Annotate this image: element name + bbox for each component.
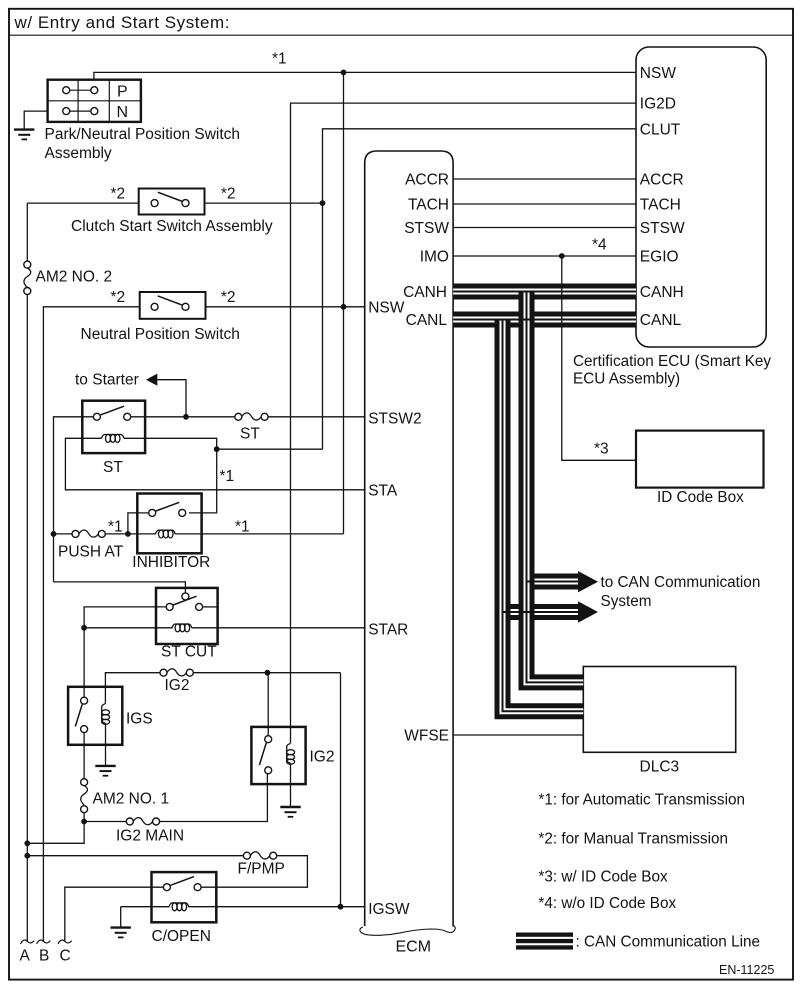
svg-text:CANL: CANL	[406, 312, 448, 329]
wire IG2 fuse line (IGS coil to IGSW column)	[105, 673, 160, 704]
ground (C/OPEN coil)	[111, 928, 131, 938]
relay INHIBITOR box	[137, 494, 201, 554]
fuse IG2 MAIN	[84, 774, 267, 825]
terminal label C	[60, 948, 71, 965]
svg-text:ECU Assembly): ECU Assembly)	[573, 371, 680, 388]
wire EGIO node to ID Code Box	[562, 256, 636, 460]
node A column / AM2 NO.1 branch	[24, 840, 30, 846]
wire ST CUT switch left to column	[84, 607, 166, 698]
wire node to A column	[27, 822, 84, 844]
label ST (relay)	[103, 459, 123, 476]
label *2 (NPS right)	[221, 289, 236, 306]
wire vertical NSW/inhibitor net	[343, 72, 345, 534]
node IGSW	[338, 904, 344, 910]
label *2 (NPS left)	[111, 289, 126, 306]
svg-text:NSW: NSW	[640, 65, 677, 82]
node NSW at ECM	[341, 304, 347, 310]
label *1 (below node)	[220, 468, 235, 485]
label ST CUT	[161, 644, 217, 661]
wire IGS switch to AM2 NO.1 fuse	[83, 732, 85, 778]
wire STSW (ECM to Cert ECU)	[453, 227, 636, 229]
IGS switch contacts	[75, 697, 87, 732]
svg-text:CLUT: CLUT	[640, 121, 681, 138]
label *2 (clutch right)	[221, 186, 236, 203]
break symbol A	[21, 940, 35, 944]
label Park/Neutral Position Switch Assembly	[45, 126, 241, 162]
label *4	[592, 237, 607, 254]
svg-text:IG2D: IG2D	[640, 96, 676, 113]
wire IG2 switch top to node	[267, 673, 269, 736]
fuse PUSH AT	[54, 530, 128, 537]
fuse AM2 NO. 2	[24, 261, 31, 294]
wire inhibitor switch left to node	[128, 513, 149, 534]
wire ST coil left to STA	[65, 438, 364, 490]
wire column A upper	[26, 203, 28, 261]
svg-text:ST CUT: ST CUT	[161, 644, 217, 661]
svg-text:ID Code Box: ID Code Box	[657, 489, 744, 506]
wire P contact to NSW pins (net *1/NSW)	[94, 72, 636, 79]
ECM pin STSW	[404, 220, 449, 237]
svg-text:TACH: TACH	[408, 197, 449, 214]
note *4 w/o ID Code Box	[538, 895, 676, 912]
ground (Park/Neutral switch)	[14, 130, 34, 140]
fuse AM2 NO. 1	[81, 779, 88, 813]
svg-text:Park/Neutral Position Switch: Park/Neutral Position Switch	[45, 126, 241, 143]
label AM2 NO. 2	[36, 269, 113, 286]
svg-text:*2: *2	[221, 289, 236, 306]
svg-text:IGSW: IGSW	[368, 901, 410, 918]
Cert ECU pin ACCR	[640, 172, 684, 189]
svg-text:*3: *3	[594, 441, 609, 458]
label IG2 (relay)	[310, 749, 335, 766]
svg-text:IG2 MAIN: IG2 MAIN	[116, 828, 184, 845]
node on EGIO wire	[559, 253, 565, 259]
svg-text:AM2 NO. 2: AM2 NO. 2	[36, 269, 113, 286]
IG2 coil (vertical)	[287, 744, 295, 765]
svg-text:C/OPEN: C/OPEN	[152, 928, 211, 945]
clutch switch contacts	[151, 192, 189, 206]
svg-text:*2: *2	[221, 186, 236, 203]
label ST (fuse)	[240, 426, 260, 443]
svg-text:A: A	[20, 948, 31, 965]
Certification ECU label	[573, 353, 771, 388]
label *1 (inhibitor right)	[235, 519, 250, 536]
wire TACH (ECM to Cert ECU)	[453, 203, 636, 205]
label Neutral Position Switch	[81, 326, 240, 343]
wire IG2 coil to ground	[290, 763, 292, 806]
node PUSH AT left	[51, 531, 57, 537]
wire clutch switch right to CLUT node	[205, 202, 323, 204]
Neutral Position Switch box	[140, 292, 206, 319]
label *3	[594, 441, 609, 458]
label IGS	[126, 711, 153, 728]
svg-text:*3: w/ ID Code Box: *3: w/ ID Code Box	[538, 869, 668, 886]
node CLUT / clutch switch junction	[320, 200, 326, 206]
Cert ECU pin IG2D	[640, 96, 676, 113]
svg-text:ST: ST	[103, 459, 123, 476]
ECM pin STA	[368, 483, 398, 500]
svg-text:*4: w/o ID Code Box: *4: w/o ID Code Box	[538, 895, 676, 912]
ECM pin CANH	[403, 284, 447, 301]
svg-text:ST: ST	[240, 426, 260, 443]
figure number EN-11225	[719, 963, 774, 977]
break symbol B	[37, 940, 51, 944]
CAN arrowhead 1	[578, 571, 598, 592]
svg-text:*2: *2	[111, 186, 126, 203]
node NSW top line	[341, 70, 347, 76]
svg-text:IG2: IG2	[310, 749, 335, 766]
IG2 switch contacts	[259, 736, 271, 774]
wire fuse to IG2 MAIN node	[83, 813, 85, 822]
label *1 (push at)	[108, 519, 123, 536]
svg-text:System: System	[601, 593, 652, 610]
legend CAN line symbol	[516, 933, 573, 950]
terminal label A	[20, 948, 31, 965]
CAN bus lines (CANH, CANL, branches to DLC3 and arrows)	[453, 292, 636, 712]
ground (IGS coil)	[95, 766, 115, 776]
label PUSH AT	[58, 544, 124, 561]
CAN arrowhead 2	[578, 601, 598, 622]
relay ST CUT box	[156, 588, 218, 644]
svg-text:*2: *2	[111, 289, 126, 306]
wire ACCR (ECM to Cert ECU)	[453, 178, 636, 180]
relay C/OPEN box	[152, 872, 217, 922]
wire IG2D line	[291, 103, 637, 743]
legend text CAN Communication Line	[576, 934, 761, 951]
svg-text:AM2 NO. 1: AM2 NO. 1	[93, 791, 170, 808]
svg-text:INHIBITOR: INHIBITOR	[132, 554, 210, 571]
svg-text:*2: for Manual Transmission: *2: for Manual Transmission	[538, 831, 728, 848]
svg-text:Certification ECU (Smart Key: Certification ECU (Smart Key	[573, 353, 771, 370]
IGS coil (vertical)	[102, 704, 110, 725]
relay IG2 box	[251, 727, 305, 784]
wire IGSW column	[340, 673, 342, 907]
ST CUT coil	[84, 624, 192, 632]
Cert ECU pin NSW	[640, 65, 677, 82]
wire fuse ST to ECM STSW2	[268, 416, 365, 418]
pin label P	[117, 83, 128, 100]
arrow to Starter	[146, 374, 186, 417]
ECM label	[396, 939, 432, 956]
relay ST coil	[102, 434, 124, 442]
svg-text:CANH: CANH	[403, 284, 447, 301]
ground (IG2 coil)	[280, 807, 300, 817]
svg-text:Assembly: Assembly	[45, 145, 112, 162]
svg-text:*1: for Automatic Transmission: *1: for Automatic Transmission	[538, 792, 745, 809]
svg-text:: CAN Communication Line: : CAN Communication Line	[576, 934, 761, 951]
ECM pin STSW2	[368, 411, 421, 428]
fuse F/PMP	[27, 852, 307, 887]
svg-text:STA: STA	[368, 483, 398, 500]
node ST CUT coil	[81, 625, 87, 631]
svg-text:to CAN Communication: to CAN Communication	[601, 574, 761, 591]
wire column A lower	[26, 294, 28, 941]
wire ST CUT supply	[54, 582, 186, 593]
Cert ECU pin CLUT	[640, 121, 681, 138]
neutral position switch contacts	[151, 296, 189, 310]
terminal label B	[39, 948, 49, 965]
wire IGS coil to ground	[105, 723, 107, 765]
svg-text:Neutral Position Switch: Neutral Position Switch	[81, 326, 240, 343]
svg-text:ACCR: ACCR	[405, 172, 449, 189]
svg-text:*1: *1	[272, 51, 287, 68]
DLC3 label	[640, 759, 680, 776]
note *1 for Automatic Transmission	[538, 792, 745, 809]
svg-text:STSW: STSW	[640, 220, 685, 237]
inhibitor switch contacts	[149, 502, 186, 516]
svg-text:STSW2: STSW2	[368, 411, 421, 428]
relay ST box	[82, 401, 145, 453]
svg-text:EN-11225: EN-11225	[719, 963, 774, 977]
Cert ECU pin CANL	[640, 312, 682, 329]
ECM pin IMO	[420, 249, 449, 266]
P/N switch contact N row	[63, 108, 98, 115]
svg-text:DLC3: DLC3	[640, 759, 680, 776]
wire CLUT line	[323, 129, 637, 449]
Cert ECU pin EGIO	[640, 249, 679, 266]
label F/PMP	[238, 861, 285, 878]
svg-text:IG2: IG2	[165, 677, 190, 694]
label *2 (clutch left)	[111, 186, 126, 203]
ECM pin TACH	[408, 197, 449, 214]
DLC3 box	[583, 667, 735, 753]
Cert ECU pin TACH	[640, 197, 681, 214]
Certification ECU box U2	[636, 47, 766, 347]
svg-text:WFSE: WFSE	[404, 728, 449, 745]
label C/OPEN	[152, 928, 211, 945]
wire ST switch left to PUSH AT column	[54, 417, 94, 582]
wire IMO to EGIO	[453, 255, 636, 257]
Cert ECU pin CANH	[640, 284, 684, 301]
wire C/OPEN switch left to C column	[65, 887, 164, 941]
label IG2 MAIN	[116, 828, 184, 845]
ECM pin CANL	[406, 312, 448, 329]
svg-text:*1: *1	[108, 519, 123, 536]
ST CUT switch contacts	[166, 593, 217, 611]
C/OPEN switch contacts	[163, 877, 201, 891]
svg-text:STSW: STSW	[404, 220, 449, 237]
ID Code Box label	[657, 489, 744, 506]
label to CAN Communication System	[601, 574, 761, 610]
svg-text:to Starter: to Starter	[75, 372, 139, 389]
note *3 w/ ID Code Box	[538, 869, 668, 886]
Clutch Start Switch Assembly box	[139, 189, 205, 215]
node inhibitor coil / switch	[125, 531, 131, 537]
svg-text:w/ Entry and Start System:: w/ Entry and Start System:	[14, 13, 231, 32]
wire C/OPEN coil to ground	[120, 907, 122, 927]
C/OPEN coil	[121, 903, 365, 911]
node starter branch	[183, 414, 189, 420]
wire ST switch right to fuse ST	[131, 416, 235, 418]
P/N switch contact P row	[63, 87, 98, 94]
node IG2 relay branch	[265, 670, 271, 676]
wire ST CUT coil to ECM STAR	[192, 627, 365, 629]
ID Code Box	[636, 431, 764, 488]
svg-text:CANH: CANH	[640, 284, 684, 301]
svg-text:B: B	[39, 948, 49, 965]
ECM box (wavy bottom break)	[360, 151, 455, 935]
wire NPS right to ECM NSW	[206, 306, 365, 308]
svg-text:N: N	[117, 104, 129, 121]
svg-text:*1: *1	[235, 519, 250, 536]
ECM pin WFSE	[404, 728, 449, 745]
title underline	[9, 34, 793, 36]
relay IGS box	[68, 687, 122, 745]
svg-text:Clutch Start Switch Assembly: Clutch Start Switch Assembly	[71, 218, 273, 235]
node IG2 MAIN	[81, 819, 87, 825]
node ST coil / CLUT / inhibitor	[214, 446, 220, 452]
svg-text:*1: *1	[220, 468, 235, 485]
inhibitor coil	[128, 530, 344, 538]
svg-text:ACCR: ACCR	[640, 172, 684, 189]
svg-text:C: C	[60, 948, 71, 965]
fuse ST	[235, 413, 268, 420]
wire ST coil right to node	[124, 438, 217, 513]
ECM pin NSW	[368, 299, 405, 316]
ECM pin STAR	[368, 622, 408, 639]
label INHIBITOR	[132, 554, 210, 571]
svg-text:IMO: IMO	[420, 249, 449, 266]
pin label N	[117, 104, 129, 121]
svg-text:TACH: TACH	[640, 197, 681, 214]
node A column / F PMP branch	[24, 853, 30, 859]
svg-text:CANL: CANL	[640, 312, 682, 329]
Park/Neutral Position Switch Assembly box	[48, 80, 141, 122]
note *2 for Manual Transmission	[538, 831, 728, 848]
svg-text:ECM: ECM	[396, 939, 432, 956]
wire N row to ground	[24, 111, 47, 129]
label to Starter	[75, 372, 139, 389]
svg-text:EGIO: EGIO	[640, 249, 679, 266]
wire WFSE (ECM to DLC3)	[453, 734, 583, 736]
svg-text:P: P	[117, 83, 128, 100]
svg-text:NSW: NSW	[368, 299, 405, 316]
break symbol C	[58, 940, 72, 944]
wire NPS left to B column	[43, 307, 139, 942]
Cert ECU pin STSW	[640, 220, 685, 237]
wire clutch switch left to A column	[27, 202, 138, 204]
fuse IG2	[160, 669, 341, 676]
label AM2 NO. 1	[93, 791, 170, 808]
label IG2 (fuse)	[165, 677, 190, 694]
ECM pin ACCR	[405, 172, 449, 189]
wire node to CLUT vertical	[217, 448, 323, 450]
ECM pin IGSW	[368, 901, 410, 918]
relay ST switch contacts	[93, 406, 130, 420]
label *1 (top)	[272, 51, 287, 68]
svg-text:IGS: IGS	[126, 711, 153, 728]
title: w/ Entry and Start System:	[14, 13, 231, 32]
svg-text:PUSH AT: PUSH AT	[58, 544, 124, 561]
svg-text:*4: *4	[592, 237, 607, 254]
svg-text:F/PMP: F/PMP	[238, 861, 285, 878]
svg-text:STAR: STAR	[368, 622, 408, 639]
label Clutch Start Switch Assembly	[71, 218, 273, 235]
